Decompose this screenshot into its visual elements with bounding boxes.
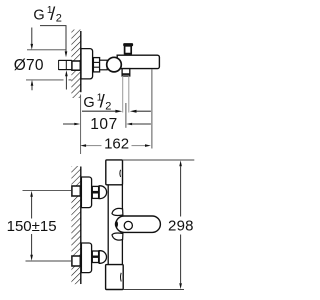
lever capsule	[116, 216, 161, 232]
label G 1/2 (top)	[33, 3, 61, 24]
Ø70 top tangent line and arrow	[27, 49, 66, 51]
Ø70 bottom tangent line and arrow	[26, 79, 64, 81]
diverter knob cap	[123, 43, 133, 46]
body column (front view)	[108, 185, 122, 265]
leader for top G 1/2 with down arrow	[40, 26, 66, 52]
dimension 150±15	[7, 191, 72, 261]
diverter knob neck	[125, 54, 127, 56]
extension line wall face	[80, 95, 82, 155]
wall hatch (front view)	[71, 166, 80, 284]
wall flange Ø70 (side view)	[81, 49, 93, 79]
lower G 1/2 leader arrows	[82, 110, 116, 112]
shower outlet pipe lines	[122, 76, 124, 113]
upper ball joint	[99, 186, 106, 199]
shower outlet fitting	[122, 69, 130, 76]
paired up arrow under pipe	[65, 76, 67, 90]
handle circle (side view)	[107, 57, 122, 72]
connector sleeve (side view)	[100, 60, 108, 70]
label G 1/2 (lower)	[83, 91, 111, 113]
svg-text:2: 2	[105, 100, 111, 112]
diverter knob stem	[125, 46, 132, 54]
lower union nut	[92, 251, 98, 263]
dimension 162	[80, 135, 151, 152]
svg-text:150±15: 150±15	[7, 218, 57, 235]
svg-text:162: 162	[104, 135, 129, 152]
wall face line (front view)	[80, 167, 82, 285]
safestop button	[115, 221, 118, 227]
extension line spout center	[151, 69, 153, 148]
wall face line (side view)	[80, 31, 82, 92]
dimension 298	[123, 160, 195, 290]
extension line outlet center	[125, 103, 127, 128]
wall hatch (side view)	[71, 30, 80, 99]
supply pipe stub (side view)	[59, 59, 72, 61]
top end cap	[106, 160, 123, 185]
upper union nut	[92, 186, 98, 198]
svg-text:107: 107	[90, 116, 118, 133]
union nut (side view)	[93, 58, 99, 72]
lever top beak	[112, 208, 123, 215]
bottom end cap	[106, 265, 124, 290]
svg-text:G: G	[83, 95, 94, 111]
svg-text:298: 298	[168, 217, 194, 234]
lever bottom beak	[112, 233, 123, 240]
svg-text:G: G	[33, 7, 44, 23]
mixer body (side view)	[117, 55, 159, 68]
svg-text:2: 2	[56, 12, 62, 24]
upper in-wall socket box	[72, 186, 80, 196]
svg-text:Ø70: Ø70	[14, 57, 44, 74]
lower in-wall socket box	[72, 256, 80, 266]
upper escutcheon	[81, 177, 91, 208]
lower ball joint	[99, 251, 106, 264]
lower escutcheon	[81, 243, 91, 273]
dimension 107	[63, 116, 151, 133]
handle ring circle	[124, 221, 132, 229]
in-wall socket box (side view)	[72, 61, 80, 70]
